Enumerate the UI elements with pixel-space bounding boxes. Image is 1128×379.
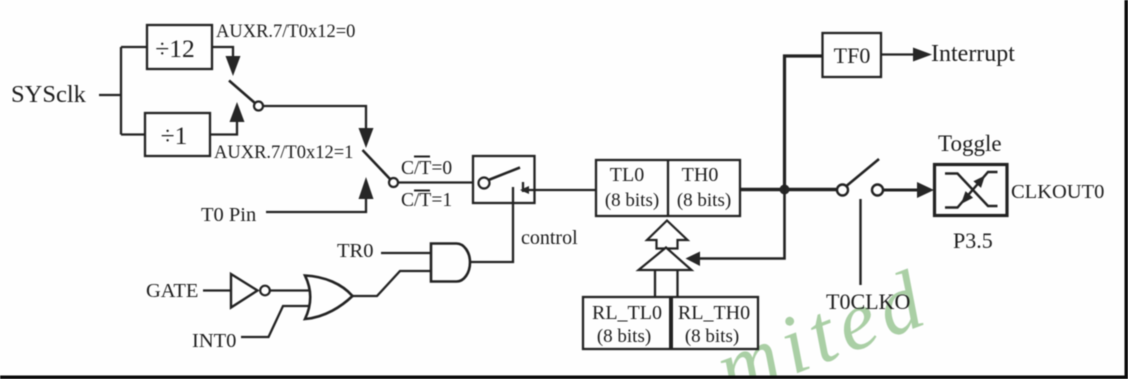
TF0 box [823,33,882,77]
toggle icon arrowhead NE [973,176,985,188]
arrowhead interrupt [913,48,932,62]
svg-text:(8 bits): (8 bits) [685,326,739,347]
arrow contact down (from ÷12) [226,56,241,76]
svg-text:÷12: ÷12 [155,34,195,63]
wire TF0 to interrupt [881,53,914,55]
toggle icon descending line [945,174,998,207]
divider box ÷1 [145,113,210,156]
thick wire junction up to TF0 [785,56,823,190]
svg-text:Toggle: Toggle [938,131,1002,156]
svg-text:RL_TL0: RL_TL0 [592,302,662,324]
svg-text:control: control [521,227,578,249]
RL divider thick [669,297,673,349]
wire GATE to NOT [203,289,231,291]
TL0/TH0 divider [667,160,669,216]
svg-text:CLKOUT0: CLKOUT0 [1011,181,1104,203]
frame bottom border [0,376,1128,379]
svg-text:TR0: TR0 [337,240,373,262]
arrow contact up (from ÷1) [230,102,245,122]
switch 2 pole circle [389,178,398,187]
wire trunk to div1 [121,133,145,135]
switch 3 contact circle right [872,185,883,196]
toggle icon ascending line [945,172,998,208]
hollow triangle (reload trigger) [639,248,692,271]
watermark green script [703,251,941,379]
thick wire switch3 to toggle box [884,189,918,192]
NOT gate bubble [260,286,270,296]
reload register box RL_TL0/RL_TH0 [583,297,758,349]
svg-text:AUXR.7/T0x12=1: AUXR.7/T0x12=1 [214,143,353,163]
thick wire TH0 to junction to switch3 [740,188,836,191]
svg-text:(8 bits): (8 bits) [677,190,731,211]
timer register box TL0/TH0 [596,160,740,216]
svg-text:C/T=0: C/T=0 [401,158,452,179]
AND gate U3 [431,244,470,282]
NOT gate U1 [231,274,258,308]
OR gate U2 [305,276,353,320]
control switch blade [489,168,521,181]
toggle box [935,165,1008,216]
svg-text:÷1: ÷1 [161,121,188,150]
switch 1 blade [229,81,256,104]
arrowhead toggle [917,182,934,198]
wire AND output to control box [469,187,513,262]
svg-text:GATE: GATE [146,280,198,302]
wire switch2 to control box [398,181,473,183]
switch 2 blade [363,150,391,179]
arrow contact up (T0 pin path) [359,177,374,199]
arrow contact down (clock path) [359,128,374,148]
reload shaft right line [676,271,678,298]
svg-text:C/T=1: C/T=1 [401,190,452,211]
control switch contact tick [522,182,524,192]
svg-text:SYSclk: SYSclk [11,81,87,108]
wire junction down to reload arrowhead [700,190,785,259]
toggle icon arrowhead SW [961,191,973,204]
divider box ÷12 [147,25,212,69]
svg-text:TL0: TL0 [610,164,644,186]
wire NOT to OR [270,289,316,291]
svg-text:(8 bits): (8 bits) [597,326,651,347]
svg-text:INT0: INT0 [192,330,236,352]
wire switch1 to switch2 [263,106,366,128]
svg-text:T0CLKO: T0CLKO [826,289,910,314]
arrowhead reload (points left) [686,252,701,267]
overline for C/T=1 [414,190,430,192]
svg-text:(8 bits): (8 bits) [605,190,659,211]
control box [473,156,535,203]
hollow arrow up (reload to TL0/TH0) [647,221,688,249]
switch 1 pole circle [254,102,263,111]
svg-text:RL_TH0: RL_TH0 [678,302,750,324]
reload shaft left line [654,271,656,298]
junction dot [780,185,790,195]
switch 3 blade [847,159,879,186]
svg-text:P3.5: P3.5 [953,228,993,253]
wire OR output zigzag to AND [352,271,431,296]
wire div12 to switch contact [212,47,233,57]
svg-text:AUXR.7/T0x12=0: AUXR.7/T0x12=0 [216,22,355,42]
wire T0 Pin to contact [266,199,366,212]
wire TR0 to AND [381,252,431,254]
frame right border [1125,0,1128,379]
wire trunk to div12 [121,46,147,48]
svg-text:T0 Pin: T0 Pin [201,204,256,226]
overline for C/T=0 [414,156,430,158]
svg-text:Interrupt: Interrupt [931,41,1015,67]
svg-text:TH0: TH0 [682,164,719,186]
wire trunk vertical [120,47,122,135]
wire control box to TL0 [528,189,596,191]
switch 3 control stem [859,199,861,285]
svg-text:TF0: TF0 [834,43,871,68]
control switch pole circle [479,178,490,189]
arrowhead into control switch [520,186,529,194]
wire INT0 to OR [241,306,316,337]
wire SYSclk to trunk [99,94,121,96]
switch 3 pole circle left [837,185,848,196]
wire div1 to switch contact [210,122,237,135]
